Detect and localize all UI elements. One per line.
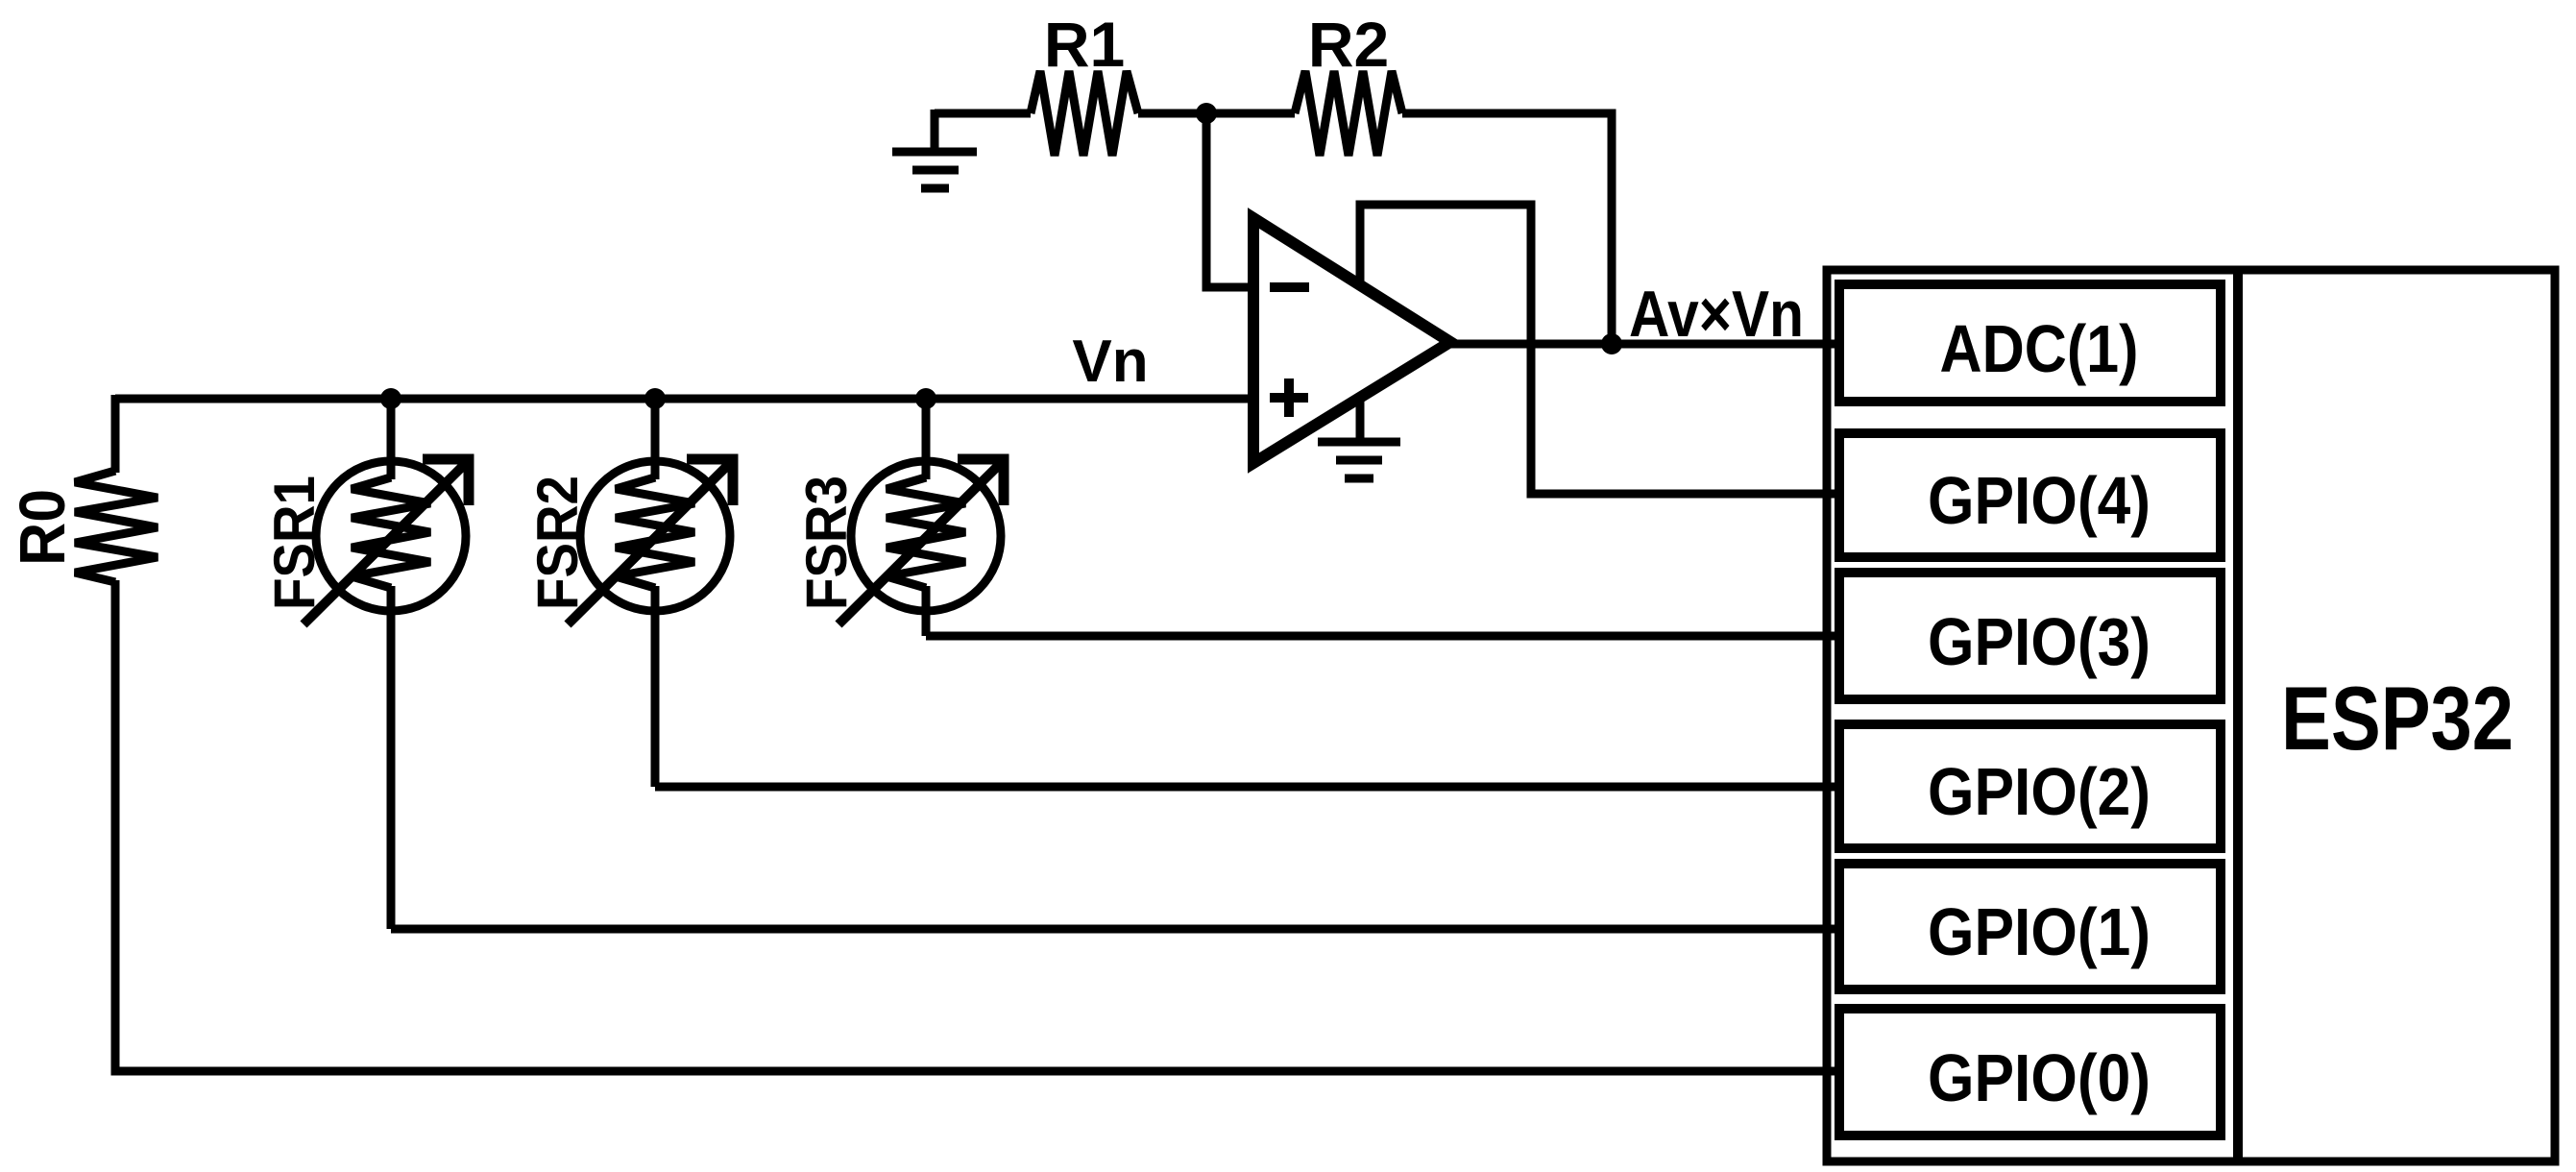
wire ground to R1 xyxy=(935,110,1031,118)
resistor R0 xyxy=(75,471,158,582)
svg-text:FSR1: FSR1 xyxy=(262,476,327,610)
pin GPIO(1) xyxy=(1839,864,2221,989)
svg-text:GPIO(1): GPIO(1) xyxy=(1928,894,2151,969)
wire node down to minus input xyxy=(1206,113,1253,287)
svg-text:FSR3: FSR3 xyxy=(794,476,859,610)
svg-text:Vn: Vn xyxy=(1072,329,1148,395)
wire R2 right to elbow xyxy=(1402,113,1612,344)
svg-text:R1: R1 xyxy=(1044,9,1125,80)
wire Vn bus xyxy=(115,395,1253,403)
svg-text:ADC(1): ADC(1) xyxy=(1940,311,2139,386)
svg-text:GPIO(0): GPIO(0) xyxy=(1928,1040,2151,1115)
FSR3 variable resistor xyxy=(838,399,1004,636)
wire FSR3 to GPIO3 xyxy=(926,632,1839,641)
svg-text:ESP32: ESP32 xyxy=(2281,668,2514,769)
wire left drop top xyxy=(111,395,120,473)
wire feedback loop to GPIO4 xyxy=(1360,205,1839,494)
node FSR3 tap xyxy=(915,388,936,409)
svg-text:R2: R2 xyxy=(1308,9,1389,80)
svg-text:FSR2: FSR2 xyxy=(525,476,590,610)
node FSR1 tap xyxy=(380,388,401,409)
wire op-amp output to ADC xyxy=(1448,340,1839,349)
wire ground stub xyxy=(931,110,939,152)
wire R1 to node xyxy=(1138,110,1295,118)
svg-text:GPIO(2): GPIO(2) xyxy=(1928,754,2151,829)
resistor R1 xyxy=(1031,71,1138,156)
svg-text:Av×Vn: Av×Vn xyxy=(1629,278,1804,351)
FSR2 variable resistor xyxy=(568,399,733,787)
wire FSR1 to GPIO1 xyxy=(391,925,1839,934)
node R1-R2 junction xyxy=(1196,103,1217,124)
node output xyxy=(1601,333,1622,354)
svg-text:GPIO(4): GPIO(4) xyxy=(1928,463,2151,538)
resistor R2 xyxy=(1295,71,1402,156)
pin GPIO(2) xyxy=(1839,724,2221,848)
pin GPIO(4) xyxy=(1839,433,2221,557)
svg-text:R0: R0 xyxy=(7,489,79,566)
op-amp U1 xyxy=(1253,218,1450,463)
node FSR2 tap xyxy=(644,388,666,409)
ground G2 xyxy=(1318,442,1400,478)
pin ADC(1) xyxy=(1839,284,2221,402)
ground G1 xyxy=(892,152,977,188)
op-amp plus symbol xyxy=(1270,378,1308,417)
pin GPIO(3) xyxy=(1839,573,2221,699)
FSR1 variable resistor xyxy=(304,399,469,929)
ESP32 outer box xyxy=(1827,270,2555,1161)
op-amp minus symbol xyxy=(1270,282,1309,292)
wire left drop bottom xyxy=(115,580,1839,1071)
svg-text:GPIO(3): GPIO(3) xyxy=(1928,604,2151,679)
ESP32 divider xyxy=(2233,270,2243,1161)
pin GPIO(0) xyxy=(1839,1009,2221,1135)
wire FSR2 to GPIO2 xyxy=(655,783,1839,792)
ground G2 stub xyxy=(1356,402,1365,442)
